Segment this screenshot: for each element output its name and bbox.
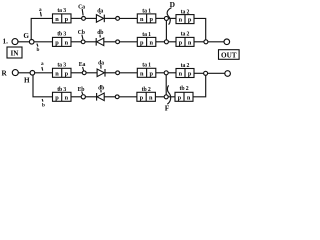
svg-text:p: p bbox=[178, 94, 182, 101]
node circle row2 mid bbox=[116, 40, 120, 44]
svg-text:Eb: Eb bbox=[78, 87, 85, 93]
svg-text:G: G bbox=[23, 32, 29, 40]
wire: ta2 row1 to merge corner and down bbox=[194, 18, 206, 39]
svg-text:IN: IN bbox=[11, 50, 20, 58]
unit tb3 (p|n) row4 bbox=[53, 87, 72, 102]
node Cb label with leader bbox=[78, 30, 85, 39]
branch label b (top) bbox=[37, 44, 40, 54]
unit ta1 (p|n) row2 bbox=[137, 32, 156, 47]
svg-text:1.: 1. bbox=[3, 38, 9, 46]
svg-text:ta 1: ta 1 bbox=[142, 63, 151, 69]
wire: diode db to node bbox=[104, 41, 116, 43]
node Ea label with leader bbox=[79, 62, 86, 70]
wire: tb3 row4 to node Eb bbox=[71, 96, 81, 98]
node Ea circle bbox=[82, 71, 86, 75]
svg-text:R: R bbox=[2, 70, 8, 78]
svg-text:a: a bbox=[41, 61, 44, 67]
unit ta3 (n|p) row3 bbox=[53, 62, 72, 77]
wire: node to unit ta1 bbox=[120, 17, 138, 19]
wire: junction to OUT terminal bbox=[208, 41, 224, 43]
unit ta1 (n|p) row1 bbox=[137, 9, 156, 23]
svg-text:ta 2: ta 2 bbox=[181, 63, 190, 69]
wire: node F row3 to unit ta2 row3 bbox=[168, 72, 176, 74]
wire: diode to node row3 bbox=[105, 72, 116, 74]
node G junction circle bbox=[29, 40, 34, 45]
node F circle row3 bbox=[164, 71, 168, 75]
wire: unit to node D row2 bbox=[156, 41, 165, 43]
wire: node to unit ta1 row2 bbox=[120, 41, 138, 43]
wire: ta2 row3 to merge junction bottom bbox=[194, 72, 203, 74]
svg-text:n: n bbox=[140, 70, 144, 77]
diode db row4 (reverse) bbox=[97, 85, 105, 100]
wire: node to unit tb2 row4 bbox=[119, 96, 137, 98]
wire: diode to node row4 bbox=[104, 96, 115, 98]
node Cb circle bbox=[81, 40, 85, 44]
svg-text:tb 3: tb 3 bbox=[57, 31, 66, 37]
wire: tb3 to node Cb bbox=[71, 41, 81, 43]
svg-text:Ca: Ca bbox=[78, 4, 85, 10]
svg-text:p: p bbox=[140, 94, 144, 101]
wire: junction to bottom OUT terminal bbox=[208, 72, 225, 74]
node D circle row1 bbox=[164, 16, 168, 20]
wire: vertical F connector row3-row4 bbox=[165, 75, 167, 95]
wire: node F row4 to unit tb2b row4 bbox=[168, 96, 175, 98]
svg-text:p: p bbox=[65, 16, 69, 23]
OUT box bbox=[219, 50, 240, 60]
wire: ta2 row2 to merge junction bbox=[194, 41, 204, 43]
svg-text:p: p bbox=[149, 16, 153, 23]
unit ta1 (n|p) row3 bbox=[137, 63, 156, 78]
unit ta2 (p|n) row2 bbox=[176, 31, 194, 46]
svg-text:H: H bbox=[24, 76, 30, 84]
node D circle row2 bbox=[164, 40, 168, 44]
node Ca circle bbox=[82, 17, 86, 21]
svg-text:n: n bbox=[179, 71, 183, 78]
wire: Cb to diode db bbox=[85, 41, 96, 43]
wire: diode da to node bbox=[104, 17, 115, 19]
svg-text:p: p bbox=[188, 71, 192, 78]
svg-text:p: p bbox=[149, 70, 153, 77]
unit tb3 (p|n) row2 bbox=[53, 31, 72, 46]
wire: ta3 row3 to node Ea bbox=[71, 72, 82, 74]
svg-text:b: b bbox=[42, 103, 45, 109]
wire: drop branch b (node H down to row 4) bbox=[33, 75, 53, 97]
wire: vertical D connector row1-row2 bbox=[165, 20, 167, 39]
svg-text:p: p bbox=[65, 70, 69, 77]
node F circle row4 bbox=[164, 95, 168, 99]
svg-text:n: n bbox=[65, 39, 69, 46]
unit ta3 (n|p) row1 bbox=[53, 8, 72, 23]
merge junction circle (top half) bbox=[204, 40, 208, 44]
svg-text:n: n bbox=[179, 17, 183, 24]
diode da row3 (forward) bbox=[97, 60, 105, 76]
svg-text:n: n bbox=[149, 94, 153, 101]
unit ta2 (n|p) row3 bbox=[176, 63, 194, 78]
svg-text:ta 2: ta 2 bbox=[181, 31, 190, 37]
branch label b (bottom) bbox=[42, 99, 45, 109]
wire: riser branch a (node G up to row 1) bbox=[31, 18, 52, 39]
terminal IN (top input open circle) bbox=[12, 39, 18, 45]
wire: node D to unit ta2 row1 bbox=[168, 17, 176, 19]
IN box bbox=[7, 47, 22, 58]
terminal OUT top (open circle) bbox=[224, 39, 230, 45]
merge junction circle (bottom half) bbox=[204, 71, 208, 75]
wire: Ca to diode da bbox=[85, 17, 96, 19]
wire: Eb to diode db row4 bbox=[85, 96, 96, 98]
branch label a (bottom) bbox=[41, 61, 44, 71]
svg-text:p: p bbox=[55, 39, 59, 46]
wire: unit to node F row3 bbox=[156, 72, 164, 74]
wire: ta3 to node Ca bbox=[71, 17, 82, 19]
svg-text:Cb: Cb bbox=[78, 30, 85, 36]
wire: IN terminal to node G bbox=[18, 41, 29, 43]
branch label a (top) bbox=[39, 7, 42, 16]
svg-text:p: p bbox=[55, 94, 59, 101]
svg-text:n: n bbox=[188, 39, 192, 46]
wire: R terminal to node H bbox=[18, 72, 30, 74]
unit tb2 (p|n) row4 right bbox=[175, 86, 193, 101]
node circle row4 mid bbox=[115, 95, 119, 99]
node circle row3 mid bbox=[116, 71, 120, 75]
svg-text:n: n bbox=[140, 16, 144, 23]
svg-text:p: p bbox=[140, 39, 144, 46]
svg-text:OUT: OUT bbox=[221, 51, 237, 59]
svg-text:b: b bbox=[37, 47, 40, 53]
terminal R (bottom input open circle) bbox=[12, 70, 18, 76]
diode db (reverse) bbox=[96, 30, 104, 46]
svg-text:F: F bbox=[165, 104, 170, 113]
wire: node H to unit ta3 row3 bbox=[35, 72, 53, 74]
unit ta2 (n|p) row1 bbox=[176, 9, 194, 23]
terminal OUT bottom (open circle) bbox=[225, 71, 231, 77]
wire: tb2 row4 to merge corner and up bbox=[193, 75, 206, 97]
svg-text:n: n bbox=[55, 16, 59, 23]
wire: ta1 to node D bbox=[156, 17, 165, 19]
node Eb label with leader bbox=[78, 87, 85, 94]
svg-text:n: n bbox=[187, 94, 191, 101]
svg-text:tb 2: tb 2 bbox=[180, 86, 189, 92]
wire: Ea to diode da row3 bbox=[86, 72, 97, 74]
wire: node to unit ta1 row3 bbox=[120, 72, 138, 74]
wire: node G to unit tb3 bbox=[34, 41, 53, 43]
svg-text:n: n bbox=[149, 39, 153, 46]
label D with curved leader bbox=[167, 0, 175, 25]
node circle row1 mid bbox=[116, 17, 120, 21]
unit tb2 (p|n) row4 bbox=[137, 87, 156, 102]
svg-text:n: n bbox=[55, 70, 59, 77]
node Ca label with leader bbox=[78, 4, 85, 15]
wire: unit to node F row4 bbox=[155, 96, 164, 98]
svg-text:p: p bbox=[179, 39, 183, 46]
node Eb circle bbox=[81, 95, 85, 99]
node H junction circle bbox=[30, 71, 35, 76]
svg-text:p: p bbox=[188, 17, 192, 24]
wire: node D row2 to unit ta2 row2 bbox=[168, 41, 176, 43]
svg-text:n: n bbox=[65, 94, 69, 101]
diode da (forward) bbox=[96, 9, 104, 23]
svg-text:ta 3: ta 3 bbox=[57, 8, 66, 14]
svg-text:ta 3: ta 3 bbox=[57, 62, 66, 68]
label F with curved leader bbox=[165, 85, 171, 112]
